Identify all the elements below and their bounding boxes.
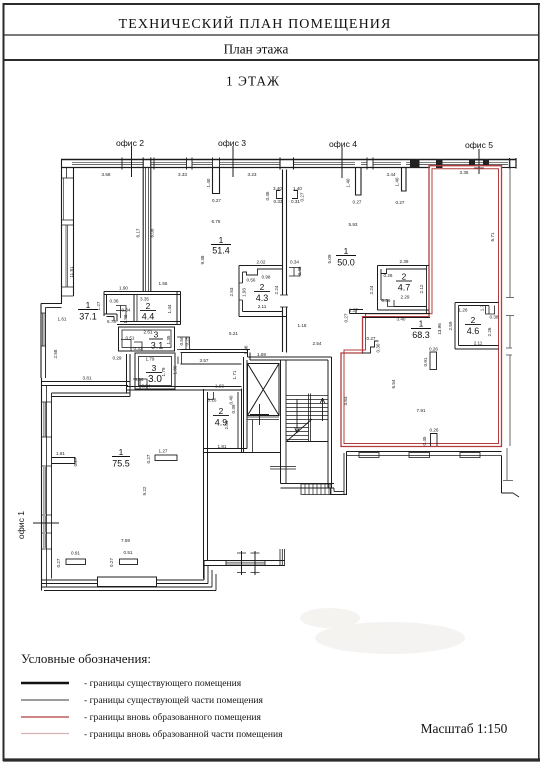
svg-text:0.34: 0.34 — [142, 384, 151, 389]
svg-text:1.27: 1.27 — [159, 449, 168, 454]
svg-text:офис 4: офис 4 — [329, 139, 357, 149]
svg-text:3: 3 — [154, 330, 159, 340]
svg-text:0.51: 0.51 — [126, 336, 135, 341]
svg-text:0.45: 0.45 — [422, 436, 427, 445]
svg-text:2.02: 2.02 — [257, 260, 266, 265]
svg-text:0.31: 0.31 — [291, 199, 300, 204]
svg-text:2.53: 2.53 — [229, 287, 234, 296]
svg-text:1.27: 1.27 — [96, 301, 101, 310]
svg-text:0.27: 0.27 — [396, 200, 405, 205]
svg-text:0.27: 0.27 — [109, 558, 114, 567]
svg-text:0.27: 0.27 — [73, 457, 78, 466]
svg-text:1.90: 1.90 — [119, 286, 128, 291]
svg-text:2: 2 — [402, 272, 407, 282]
svg-text:1.71: 1.71 — [232, 370, 237, 379]
svg-text:Масштаб 1:150: Масштаб 1:150 — [421, 721, 508, 736]
svg-text:2.58: 2.58 — [53, 349, 58, 358]
svg-text:3.35: 3.35 — [460, 170, 469, 175]
svg-text:0.91: 0.91 — [71, 551, 80, 556]
svg-text:2.11: 2.11 — [474, 341, 483, 346]
svg-text:5.93: 5.93 — [349, 222, 358, 227]
svg-text:6.76: 6.76 — [212, 219, 221, 224]
svg-text:1.26: 1.26 — [459, 308, 468, 313]
svg-text:0.98: 0.98 — [262, 275, 271, 280]
svg-text:9.22: 9.22 — [142, 486, 147, 495]
svg-text:1.40: 1.40 — [293, 186, 302, 191]
svg-text:2.11: 2.11 — [258, 304, 267, 309]
svg-text:1.18: 1.18 — [298, 323, 307, 328]
svg-text:0.27: 0.27 — [367, 336, 376, 341]
svg-text:7.59: 7.59 — [121, 538, 130, 543]
svg-text:75.5: 75.5 — [112, 459, 130, 469]
svg-text:3.58: 3.58 — [102, 172, 111, 177]
svg-text:1.40: 1.40 — [346, 178, 351, 187]
svg-text:37.1: 37.1 — [79, 312, 97, 322]
svg-text:Условные обозначения:: Условные обозначения: — [21, 651, 151, 666]
svg-text:0.36: 0.36 — [382, 298, 391, 303]
svg-text:51.4: 51.4 — [212, 246, 230, 256]
svg-text:0.27: 0.27 — [56, 558, 61, 567]
svg-text:0.26: 0.26 — [208, 398, 217, 403]
svg-text:1.81: 1.81 — [56, 451, 65, 456]
svg-text:2.04: 2.04 — [224, 420, 229, 429]
svg-text:2.24: 2.24 — [369, 285, 374, 294]
svg-text:2.39: 2.39 — [400, 259, 409, 264]
svg-text:1.46: 1.46 — [244, 345, 249, 354]
svg-text:3.81: 3.81 — [83, 376, 92, 381]
svg-text:5.09: 5.09 — [327, 254, 332, 263]
svg-text:11.81: 11.81 — [69, 266, 74, 278]
svg-text:0.27: 0.27 — [344, 313, 349, 322]
svg-text:- границы вновь образованной ч: - границы вновь образованной части помещ… — [84, 729, 283, 740]
svg-text:6.17: 6.17 — [136, 228, 141, 237]
svg-text:офис 5: офис 5 — [465, 140, 493, 150]
svg-text:0.45: 0.45 — [265, 191, 270, 200]
svg-text:3.44: 3.44 — [387, 172, 396, 177]
svg-text:2.29: 2.29 — [401, 295, 410, 300]
svg-text:1.44: 1.44 — [167, 304, 172, 313]
svg-text:0.56: 0.56 — [247, 278, 256, 283]
svg-text:1.61: 1.61 — [58, 317, 67, 322]
svg-text:0.40: 0.40 — [229, 395, 234, 404]
svg-text:1.40: 1.40 — [206, 178, 211, 187]
svg-text:6.73: 6.73 — [107, 319, 116, 324]
svg-text:6.71: 6.71 — [490, 232, 495, 241]
svg-text:3.40: 3.40 — [397, 317, 406, 322]
svg-text:0.27: 0.27 — [353, 200, 362, 205]
svg-text:2.26: 2.26 — [487, 327, 492, 336]
svg-text:офис 3: офис 3 — [218, 138, 246, 148]
svg-text:5.21: 5.21 — [229, 331, 238, 336]
svg-text:2: 2 — [219, 406, 224, 416]
svg-text:0.26: 0.26 — [430, 428, 439, 433]
svg-text:0.46: 0.46 — [297, 266, 302, 275]
svg-text:офис 2: офис 2 — [116, 138, 144, 148]
svg-text:13.96: 13.96 — [437, 323, 442, 335]
svg-text:1.7: 1.7 — [480, 304, 485, 311]
svg-text:0.27: 0.27 — [300, 192, 305, 201]
svg-text:1.06: 1.06 — [173, 365, 178, 374]
svg-text:2: 2 — [146, 301, 151, 311]
svg-text:0.34: 0.34 — [290, 260, 299, 265]
svg-text:9.38: 9.38 — [200, 255, 205, 264]
svg-text:4.7: 4.7 — [398, 283, 411, 293]
svg-text:4.4: 4.4 — [142, 312, 155, 322]
svg-text:68.3: 68.3 — [412, 330, 430, 340]
svg-text:3: 3 — [152, 363, 157, 373]
svg-text:3.1: 3.1 — [151, 341, 164, 351]
svg-text:офис 1: офис 1 — [16, 511, 26, 539]
svg-text:0.30: 0.30 — [376, 343, 381, 352]
svg-text:0.27: 0.27 — [146, 454, 151, 463]
svg-text:3.33: 3.33 — [178, 172, 187, 177]
svg-text:2.59: 2.59 — [448, 321, 453, 330]
svg-text:2.61: 2.61 — [144, 330, 153, 335]
svg-text:0.39: 0.39 — [231, 404, 236, 413]
svg-text:1: 1 — [344, 246, 349, 256]
svg-text:0.91: 0.91 — [423, 357, 428, 366]
svg-text:1.81: 1.81 — [218, 444, 227, 449]
svg-text:4.6: 4.6 — [467, 326, 480, 336]
svg-text:2: 2 — [471, 315, 476, 325]
svg-text:1.69: 1.69 — [257, 352, 266, 357]
svg-text:1 ЭТАЖ: 1 ЭТАЖ — [226, 74, 280, 89]
svg-text:0.50: 0.50 — [179, 336, 184, 345]
svg-text:2.24: 2.24 — [274, 285, 279, 294]
svg-text:6.08: 6.08 — [150, 228, 155, 237]
svg-text:План этажа: План этажа — [224, 42, 289, 57]
svg-text:3.57: 3.57 — [200, 358, 209, 363]
svg-text:50.0: 50.0 — [337, 258, 355, 268]
svg-text:3.23: 3.23 — [248, 172, 257, 177]
svg-text:- границы вновь образованного: - границы вновь образованного помещения — [84, 712, 261, 723]
svg-text:0.56: 0.56 — [135, 377, 144, 382]
svg-text:0.25: 0.25 — [185, 336, 190, 345]
svg-text:4.63: 4.63 — [343, 396, 348, 405]
svg-text:0.38: 0.38 — [490, 315, 499, 320]
svg-text:0.29: 0.29 — [113, 356, 122, 361]
svg-text:0.26: 0.26 — [429, 347, 438, 352]
svg-text:0.34: 0.34 — [122, 308, 131, 313]
svg-text:1.35: 1.35 — [166, 335, 171, 344]
svg-text:1.93: 1.93 — [215, 384, 224, 389]
svg-text:1.79: 1.79 — [146, 357, 155, 362]
svg-text:1: 1 — [419, 319, 424, 329]
svg-text:- границы существующего помеще: - границы существующего помещения — [84, 678, 242, 689]
svg-text:2.54: 2.54 — [313, 341, 322, 346]
svg-text:0.33: 0.33 — [274, 199, 283, 204]
svg-text:0.27: 0.27 — [212, 198, 221, 203]
svg-text:6.54: 6.54 — [391, 379, 396, 388]
svg-text:2.12: 2.12 — [419, 284, 424, 293]
svg-text:1: 1 — [219, 235, 224, 245]
svg-text:0.51: 0.51 — [124, 550, 133, 555]
svg-text:1: 1 — [86, 300, 91, 310]
svg-text:1.27: 1.27 — [349, 308, 358, 313]
svg-text:ТЕХНИЧЕСКИЙ ПЛАН ПОМЕЩЕНИЯ: ТЕХНИЧЕСКИЙ ПЛАН ПОМЕЩЕНИЯ — [119, 15, 392, 32]
svg-text:0.33: 0.33 — [134, 346, 143, 351]
svg-text:1.79: 1.79 — [161, 367, 166, 376]
svg-text:- границы существующей части п: - границы существующей части помещения — [84, 695, 263, 706]
svg-text:1.93: 1.93 — [242, 288, 247, 297]
svg-text:7.91: 7.91 — [417, 408, 426, 413]
svg-text:0.36: 0.36 — [110, 299, 119, 304]
svg-text:1: 1 — [119, 447, 124, 457]
svg-text:1.55: 1.55 — [159, 281, 168, 286]
svg-text:3.35: 3.35 — [140, 297, 149, 302]
svg-text:4.3: 4.3 — [256, 293, 269, 303]
svg-text:0.26: 0.26 — [384, 273, 393, 278]
svg-text:1.80: 1.80 — [123, 314, 128, 323]
svg-text:2: 2 — [260, 282, 265, 292]
svg-text:3.40: 3.40 — [273, 186, 282, 191]
svg-text:1.40: 1.40 — [395, 177, 400, 186]
